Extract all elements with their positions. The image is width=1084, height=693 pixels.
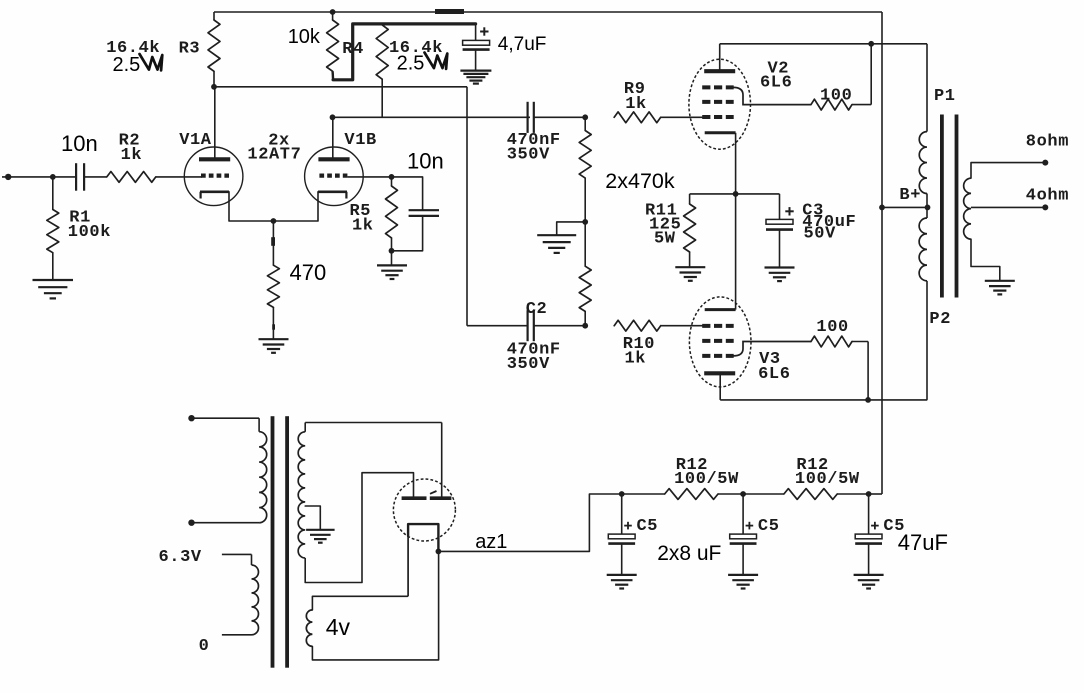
capacitor C5 third (855, 494, 882, 575)
tube V1B 12AT7 (273, 117, 363, 221)
ref label R3 (179, 40, 201, 59)
value label 2.5W (R3) (113, 54, 163, 76)
ref label P2 (929, 310, 951, 329)
resistor R12 second (743, 489, 869, 500)
svg-text:12AT7: 12AT7 (247, 146, 301, 165)
ref label R5 1k (350, 202, 374, 236)
resistor 100 lower (811, 336, 868, 400)
tube V1A 12AT7 (184, 87, 273, 221)
transformer power core (271, 416, 289, 668)
node mains terminal upper (188, 415, 194, 421)
svg-text:10k: 10k (288, 26, 321, 48)
tube V3 6L6 (689, 297, 811, 387)
node rectifier output (436, 549, 442, 555)
ground C5 third (854, 575, 884, 589)
svg-text:100/5W: 100/5W (674, 470, 739, 489)
wire HV bottom to rectifier plate (305, 473, 413, 583)
resistor R1 100k (47, 177, 59, 280)
wire lead R5 gnd (391, 251, 393, 265)
value label 47uF (898, 530, 948, 555)
svg-text:P1: P1 (934, 87, 956, 106)
capacitor C1 470nF (528, 102, 534, 133)
svg-text:4,7uF: 4,7uF (498, 34, 547, 55)
svg-text:6L6: 6L6 (758, 365, 790, 384)
svg-text:C5: C5 (758, 517, 780, 536)
ref label R4 (342, 40, 364, 59)
label 0 (199, 637, 210, 656)
value label 4,7uF (498, 34, 547, 55)
ref label R9 1k (624, 80, 647, 114)
value label 16.4k (V1B load) (389, 39, 443, 58)
value label 470nF 350V upper (507, 131, 561, 165)
wire HV top to rectifier plate (305, 423, 442, 499)
svg-text:10n: 10n (407, 149, 444, 174)
wire thick rail segment (435, 9, 464, 14)
svg-text:100k: 100k (68, 223, 111, 242)
ref label R10 1k (623, 335, 655, 369)
ref label R12 second (795, 456, 860, 489)
wire C1 to node (534, 116, 585, 118)
svg-text:0: 0 (199, 637, 210, 656)
ref label R12 first (674, 456, 739, 489)
label 4v (326, 614, 351, 640)
wire lead to ground (272, 307, 274, 339)
svg-text:100: 100 (816, 318, 848, 337)
svg-text:2.5: 2.5 (113, 54, 141, 76)
value label 2x470k (605, 169, 675, 193)
svg-text:6.3V: 6.3V (159, 548, 202, 567)
svg-text:2x8 uF: 2x8 uF (657, 542, 721, 565)
junction blob upper (271, 237, 275, 246)
resistor R12 first (622, 489, 743, 500)
value label 16.4k (R3) (106, 39, 160, 58)
resistor R2 1k (107, 172, 156, 183)
svg-text:R4: R4 (342, 40, 364, 59)
node B+ (879, 205, 885, 211)
value label 2x8 uF (657, 542, 721, 565)
junction blob lower (272, 324, 275, 329)
svg-text:az1: az1 (475, 531, 507, 553)
node input terminal (5, 174, 11, 180)
node filter 1 (619, 491, 625, 497)
svg-text:50V: 50V (804, 225, 837, 244)
ground of 470 (259, 339, 289, 353)
svg-text:1k: 1k (625, 95, 647, 114)
value label 470 (290, 260, 327, 285)
capacitor C3 470uF (766, 194, 794, 267)
node primary centre tap (925, 205, 931, 211)
value label 100 lower (816, 318, 848, 337)
ref label P1 (934, 87, 956, 106)
resistor R3 16.4k (208, 12, 220, 87)
svg-text:2x470k: 2x470k (605, 169, 675, 193)
node plate-screen link lower (865, 397, 871, 403)
transformer P2 primary lower winding (919, 207, 927, 400)
svg-text:P2: P2 (929, 310, 951, 329)
svg-text:350V: 350V (507, 145, 550, 164)
value label 10n input (61, 131, 98, 156)
wire V1B plate line to C1 (333, 116, 531, 118)
node R5 ground node (389, 248, 395, 254)
tube V2 6L6 (689, 59, 811, 149)
svg-text:100/5W: 100/5W (795, 470, 860, 489)
wire cathode bus (690, 193, 780, 195)
value label 470nF 350V lower (507, 340, 561, 374)
node V1A plate node (211, 84, 217, 90)
svg-text:1k: 1k (121, 146, 143, 165)
wire HV centre tap (305, 506, 320, 530)
wire V2 cathode lead (735, 133, 737, 194)
wire B+ to primary tap (882, 206, 928, 208)
label 8ohm (1026, 133, 1069, 152)
svg-text:47uF: 47uF (898, 530, 948, 555)
resistor 2x470k lower (579, 222, 591, 326)
svg-text:C5: C5 (637, 517, 659, 536)
wire lower line to C2 (467, 325, 528, 327)
ground of 4.7uF (460, 71, 491, 84)
svg-text:2.5: 2.5 (397, 53, 425, 75)
transformer HV secondary winding (298, 423, 305, 583)
svg-text:V1A: V1A (179, 131, 212, 150)
ref label 2x 12AT7 (247, 132, 301, 165)
capacitor 4.7uF (463, 24, 490, 71)
ref label R1 100k (68, 209, 111, 243)
wire cathode drop (272, 221, 274, 265)
wire V3 cathode lead (735, 194, 737, 310)
value label 2.5W (V1B load) (397, 53, 448, 75)
label 6.3V (159, 548, 202, 567)
svg-text:6L6: 6L6 (760, 74, 792, 93)
resistor 2x470k upper (579, 117, 591, 222)
wire B+ top rail (214, 11, 882, 13)
ref label az1 (475, 531, 507, 553)
capacitor 10n shunt (392, 177, 440, 251)
resistor 470 cathode (267, 265, 279, 307)
node lower grid node (582, 323, 588, 329)
ref label V1A (179, 131, 212, 150)
resistor 100 upper (811, 44, 871, 110)
ref label C2 (526, 300, 548, 319)
svg-text:R3: R3 (179, 40, 201, 59)
resistor R4 10k (327, 12, 339, 80)
ref label C5 second (758, 517, 780, 536)
wire B+ vertical (881, 12, 883, 494)
svg-text:V1B: V1B (344, 131, 376, 150)
svg-text:5W: 5W (654, 230, 676, 249)
wire V1B grid wire (347, 176, 391, 178)
ground secondary (985, 281, 1015, 295)
svg-text:1k: 1k (352, 217, 374, 236)
wire mid ground tap (557, 222, 586, 235)
svg-text:C2: C2 (526, 300, 548, 319)
resistor 16.4k V1B load (376, 24, 388, 117)
capacitor C2 470nF (528, 310, 586, 341)
transformer 6.3V winding (222, 554, 259, 634)
value label 100 upper (820, 87, 852, 106)
wire V1A plate line (214, 87, 467, 326)
svg-text:4v: 4v (326, 614, 351, 640)
node filter 3 (866, 491, 872, 497)
ground of R1 (33, 280, 74, 298)
ref label R11 125 5W (645, 202, 681, 249)
label B+ (899, 186, 921, 205)
value label 10n shunt (407, 149, 444, 174)
resistor R9 1k (614, 112, 661, 123)
ref label V1B (344, 131, 376, 150)
tube az1 rectifier (393, 479, 455, 596)
node filter 2 (740, 491, 746, 497)
transformer mains primary winding (192, 418, 267, 523)
ref label V2 6L6 (760, 60, 792, 93)
node 8ohm terminal (1042, 160, 1048, 166)
wire input grid V1A (156, 176, 202, 178)
svg-text:1k: 1k (625, 350, 647, 369)
ground mid divider (537, 235, 576, 253)
wire R10 to V3 grid (661, 325, 703, 327)
node 4ohm terminal (1042, 204, 1048, 210)
node divider mid node (582, 219, 588, 225)
wire filter to B+ riser (869, 493, 882, 495)
transformer output core (940, 115, 958, 298)
resistor R10 1k (614, 320, 661, 331)
svg-text:100: 100 (820, 87, 852, 106)
ref label R2 1k (119, 131, 143, 165)
svg-text:350V: 350V (507, 355, 550, 374)
node mains terminal lower (188, 520, 194, 526)
ref label C5 first (637, 517, 659, 536)
svg-text:10n: 10n (61, 131, 98, 156)
wire thick link R4 to 4.7uF (333, 24, 476, 80)
ref label C5 third (883, 517, 905, 536)
transformer secondary winding (964, 163, 1046, 281)
wire rectifier output to filter (438, 494, 621, 551)
wire 4ohm tap (971, 206, 1045, 208)
svg-text:4ohm: 4ohm (1026, 187, 1069, 206)
ground C5 second (728, 575, 758, 589)
node V1B grid node (389, 174, 395, 180)
wire V2 plate lead and top link (720, 44, 927, 71)
capacitor C5 first (608, 494, 635, 575)
svg-text:8ohm: 8ohm (1026, 133, 1069, 152)
ground of R5 (377, 265, 407, 279)
capacitor C5 second (730, 494, 757, 575)
resistor R5 1k (386, 177, 398, 251)
svg-text:B+: B+ (899, 186, 921, 205)
capacitor 10n input (76, 163, 107, 191)
value label 10k (R4) (288, 26, 321, 48)
wire R9 to V2 grid (661, 116, 703, 118)
ground centre tap (306, 530, 335, 543)
resistor R11 125 5W (684, 194, 696, 267)
node common cathode V1 (271, 218, 277, 224)
svg-text:470: 470 (290, 260, 327, 285)
node output cathode node (733, 191, 739, 197)
ground C5 first (607, 575, 637, 589)
node upper grid node (582, 114, 588, 120)
wire input (2, 176, 76, 178)
ref label C3 470uF 50V (802, 202, 856, 244)
node rail-R4 junction (330, 9, 336, 15)
transformer P1 primary upper winding (919, 44, 927, 208)
label 4ohm (1026, 187, 1069, 206)
node input junction (50, 174, 56, 180)
wire V3 plate lead and bottom link (720, 373, 927, 400)
node V1B plate node (330, 114, 336, 120)
ground of R11 (675, 267, 705, 281)
ref label V3 6L6 (758, 350, 790, 384)
node plate-screen link upper (868, 41, 874, 47)
ground of C3 (765, 268, 795, 282)
transformer 4v winding (306, 551, 438, 660)
